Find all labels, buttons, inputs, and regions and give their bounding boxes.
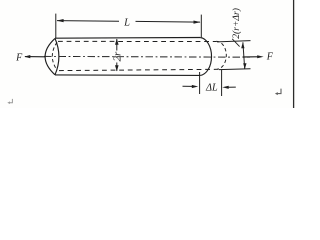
force F right arrow line <box>243 56 259 58</box>
2r up arrowhead <box>115 39 119 45</box>
2r dimension line upper segment <box>116 39 118 51</box>
ΔL left extension line <box>199 72 201 94</box>
2(r+Δr) down arrowhead <box>243 63 246 69</box>
ΔL right arrowhead <box>222 86 228 89</box>
ΔL left arrow line <box>183 85 193 87</box>
ΔL right extension line <box>221 70 223 97</box>
svg-text:ΔL: ΔL <box>205 82 218 93</box>
2(r+Δr) bottom extension line <box>219 68 251 71</box>
stretched rod dashed right cap arc <box>216 41 226 69</box>
ΔL right arrow line <box>229 86 236 88</box>
L dimension line (right segment) <box>136 20 201 23</box>
2(r+Δr) top extension line <box>217 41 251 42</box>
L dimension right arrowhead <box>194 21 201 24</box>
paragraph return mark bottom-right <box>277 89 281 94</box>
rod left end cap right arc <box>55 38 59 74</box>
stretched rod dashed left cap arc <box>52 42 57 70</box>
L dimension line (left segment) <box>57 20 119 23</box>
rod left end cap (lens outline) <box>45 38 55 74</box>
2r down arrowhead <box>115 65 119 71</box>
svg-text:F: F <box>266 52 274 63</box>
L dimension right extension line <box>200 15 202 38</box>
rod top edge <box>55 37 200 40</box>
axis center line (dash-dot) <box>44 55 250 58</box>
rod right end cap arc <box>200 38 211 76</box>
stretched rod dashed top edge <box>58 40 216 42</box>
force F left arrowhead <box>24 55 30 58</box>
svg-text:2(r+Δr): 2(r+Δr) <box>231 8 242 39</box>
rod bottom edge <box>55 74 200 77</box>
svg-text:F: F <box>15 52 23 63</box>
force F left arrow line <box>25 56 46 58</box>
2(r+Δr) label leader stroke <box>232 39 239 47</box>
2(r+Δr) dimension line <box>243 42 245 69</box>
paragraph return mark bottom-left <box>9 99 12 103</box>
2(r+Δr) up arrowhead <box>241 42 244 48</box>
force F right arrowhead <box>257 55 263 58</box>
L dimension left arrowhead <box>57 19 64 22</box>
svg-text:2r: 2r <box>111 51 123 62</box>
label 2r (rotated) <box>111 51 123 62</box>
2r dimension line lower segment <box>116 63 118 72</box>
label 2(r+Δr) (rotated) <box>231 8 242 39</box>
ΔL left arrowhead <box>192 85 198 88</box>
stretched rod dashed bottom edge <box>59 69 219 70</box>
page right border line <box>293 0 295 108</box>
L dimension left extension line <box>55 14 57 38</box>
svg-text:L: L <box>123 18 130 29</box>
